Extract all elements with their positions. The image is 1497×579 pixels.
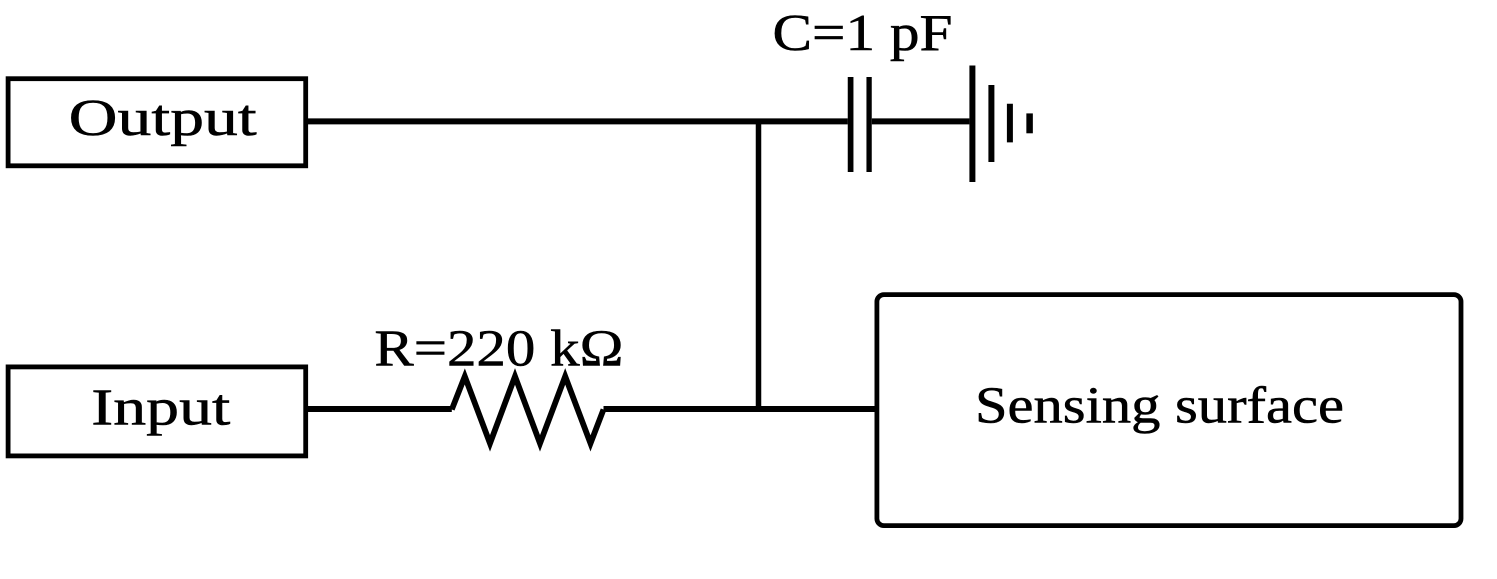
ground <box>972 66 1029 183</box>
svg-text:C=1 pF: C=1 pF <box>773 5 953 62</box>
wire input to resistor <box>306 406 452 412</box>
capacitor C1 <box>851 77 870 172</box>
wire capacitor to ground <box>872 118 970 124</box>
svg-text:Output: Output <box>69 90 258 147</box>
svg-text:R=220 kΩ: R=220 kΩ <box>374 321 623 378</box>
box Sensing surface <box>877 295 1461 526</box>
box Input <box>8 367 306 456</box>
svg-text:Sensing surface: Sensing surface <box>975 378 1344 435</box>
wire resistor to sensing surface <box>604 406 877 412</box>
svg-text:Input: Input <box>91 380 231 437</box>
resistor R1 <box>452 376 604 443</box>
wire output to capacitor <box>306 118 848 124</box>
wire junction vertical <box>756 121 762 409</box>
box Output <box>8 79 306 166</box>
